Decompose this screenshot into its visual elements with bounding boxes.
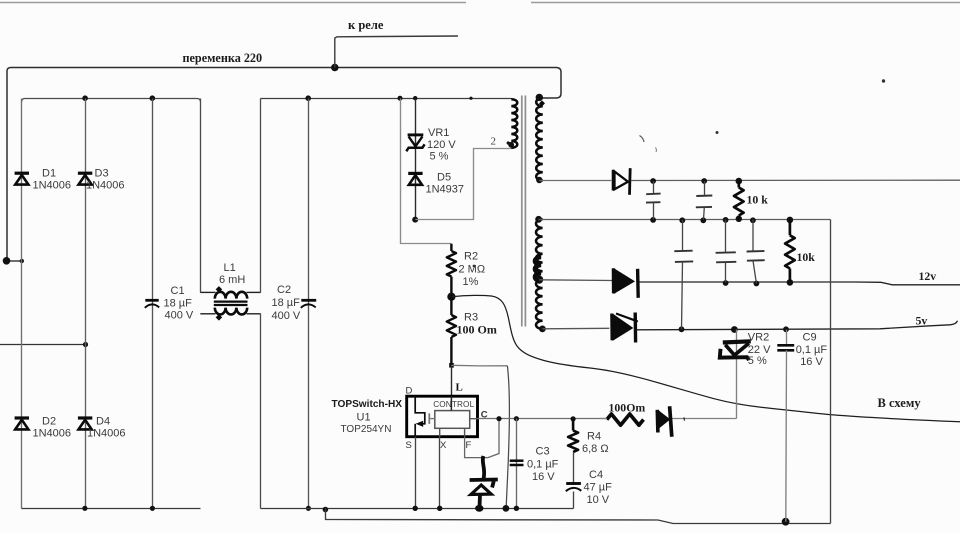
node rail2 at 10k <box>736 216 742 222</box>
resistor 10k snubber <box>734 181 744 219</box>
IC U1 C pin stub <box>470 418 478 420</box>
wire rect2 top rail to primary <box>261 98 512 100</box>
inductor L1 polarity dot top <box>216 286 223 293</box>
IC U1 gate bar <box>428 413 430 424</box>
svg-text:D4: D4 <box>96 416 110 428</box>
svg-text:16 V: 16 V <box>800 356 823 368</box>
wire AC second input line <box>0 344 86 346</box>
svg-text:к реле: к реле <box>348 18 384 32</box>
node secondary1 polarity dot <box>539 100 545 106</box>
node C line at C3 <box>514 416 519 421</box>
capacitor CE rail2 to 12v rail <box>752 220 754 251</box>
node rail1 at cap A <box>650 178 656 184</box>
IC U1 control block <box>435 411 470 429</box>
wire C1 column <box>152 99 154 509</box>
node rail2 at capD <box>723 217 729 223</box>
node bridge top at D3 column <box>82 95 88 101</box>
capacitor C9 plates <box>777 344 794 347</box>
wire branch to relay (к реле) <box>335 36 458 68</box>
node bridge bottom at D4 column <box>82 506 87 511</box>
wire bridge top rail <box>22 99 201 103</box>
svg-text:C2: C2 <box>277 284 291 296</box>
node rect2 top at R2 drop <box>398 96 403 101</box>
inductor L1 polarity dot bottom <box>216 314 223 321</box>
svg-text:VR1: VR1 <box>428 127 449 139</box>
svg-text:5v: 5v <box>916 314 928 328</box>
wire rect2 left column upper <box>260 99 262 293</box>
node 12v rail at 10k2 <box>787 279 794 286</box>
speck small mark <box>655 148 658 153</box>
top border line left segment <box>0 2 466 4</box>
wire 5v rail <box>637 321 958 330</box>
node R2/R3 junction <box>447 293 455 301</box>
svg-text:TOP254YN: TOP254YN <box>341 424 392 435</box>
resistor 10k2 rail2 to 12v rail <box>785 220 795 283</box>
svg-text:U1: U1 <box>357 412 371 424</box>
svg-text:В схему: В схему <box>878 396 922 410</box>
node secondary2 top <box>535 216 542 223</box>
capacitor CC rail2 to 5v rail <box>682 220 684 251</box>
diode D3 <box>78 172 92 175</box>
wire R4 to C4 <box>573 452 575 483</box>
svg-text:D5: D5 <box>437 172 451 184</box>
inductor L1 core bar 2 <box>214 304 248 306</box>
svg-text:переменка 220: переменка 220 <box>183 51 263 65</box>
wire F pin jog to C line <box>465 419 499 458</box>
speck near transformer <box>473 265 476 268</box>
node secondary1 bottom <box>536 177 542 183</box>
diode VD3 <box>610 314 613 341</box>
diode D4 <box>78 416 92 419</box>
diode VD1 <box>612 170 615 191</box>
inductor L1 bottom winding lead right <box>247 313 261 315</box>
node 12v rail at cap E <box>754 281 760 287</box>
zener Z1 triangle <box>471 485 491 495</box>
wire bridge bottom rail <box>22 508 201 510</box>
wire VR2 column <box>736 330 738 419</box>
node rail1 at cap B <box>701 178 707 184</box>
svg-text:X: X <box>440 440 447 451</box>
node C line at R4 <box>571 416 576 421</box>
node primary bottom <box>508 142 514 148</box>
transformer core bar 2 <box>524 96 526 327</box>
IC U1 F pin stub <box>464 428 466 436</box>
zener VR1 symbol <box>408 133 424 136</box>
diode VD4 feedback <box>655 410 659 433</box>
svg-text:C1: C1 <box>171 285 185 297</box>
wire L-node branch horizontal <box>451 364 507 367</box>
node AC link to D1 column <box>20 259 24 263</box>
node zener Z1 at bottom rail <box>475 505 483 512</box>
svg-text:R4: R4 <box>587 431 601 443</box>
wire freehand long wire to В схему <box>451 295 960 421</box>
diode D5 symbol <box>408 172 422 175</box>
resistor R2 <box>447 244 456 297</box>
node rail2 at 10k2 <box>787 217 794 224</box>
wire C3 column <box>516 419 518 509</box>
svg-text:0,1 µF: 0,1 µF <box>796 344 828 356</box>
IC U1 MOSFET arrowhead <box>416 421 424 427</box>
zener Z1 stem bottom <box>478 495 482 508</box>
svg-text:C9: C9 <box>803 332 817 344</box>
node bottom rail to lower rail junction <box>323 507 329 513</box>
svg-text:100 Om: 100 Om <box>457 323 497 337</box>
svg-text:L1: L1 <box>224 262 236 274</box>
svg-text:2 MΩ: 2 MΩ <box>459 264 486 276</box>
svg-text:D3: D3 <box>95 168 109 180</box>
node L-branch at bottom rail <box>503 505 510 512</box>
svg-text:18 µF: 18 µF <box>164 297 193 309</box>
inductor L1 core bar 1 <box>214 300 248 302</box>
svg-text:400 V: 400 V <box>272 310 301 322</box>
zener Z1 cathode bar <box>470 480 498 488</box>
capacitor C3 plates <box>510 459 524 462</box>
inductor L1 bottom winding lead left <box>200 313 215 315</box>
svg-text:12v: 12v <box>919 269 937 283</box>
wire from top rail down to R2 <box>401 99 452 244</box>
wire bridge right edge to L1 <box>200 99 202 293</box>
svg-text:6 mH: 6 mH <box>219 274 245 286</box>
svg-text:1%: 1% <box>463 276 479 288</box>
wire C4 to bottom rail <box>573 492 575 509</box>
diode VD2 <box>612 268 616 293</box>
svg-text:C4: C4 <box>589 469 603 481</box>
capacitor C1 symbol <box>145 299 158 302</box>
inductor L1 top winding <box>215 292 247 299</box>
svg-text:1N4006: 1N4006 <box>86 180 125 192</box>
wire rect2 left column lower <box>260 314 262 509</box>
wire C2 column <box>308 99 310 509</box>
resistor 100Om feedback <box>607 414 644 425</box>
node rect2 bottom at C2 <box>306 506 311 511</box>
svg-text:6,8 Ω: 6,8 Ω <box>582 443 609 455</box>
resistor R3 <box>447 297 456 365</box>
node AC left corner <box>3 257 11 265</box>
node primary top polarity dot <box>507 141 510 144</box>
node clamp bottom junction <box>412 217 418 223</box>
wire C9 column lower <box>785 350 788 521</box>
node X at bottom rail <box>437 506 442 511</box>
wire D1/D2 column <box>21 99 23 509</box>
svg-text:400 V: 400 V <box>165 310 194 322</box>
transformer core bar 1 <box>521 96 523 327</box>
wire AC top rail with corner to transformer <box>7 68 561 260</box>
svg-text:L: L <box>456 382 463 394</box>
svg-text:10 k: 10 k <box>747 193 769 207</box>
node lower rail at C9 <box>782 518 790 526</box>
wire rect2 bottom rail <box>261 508 574 510</box>
node bridge top at C1 column <box>150 95 156 101</box>
node 5v rail at C9 <box>783 326 789 332</box>
zener Z1 below TOPSwitch stem top <box>483 456 484 479</box>
svg-text:1N4006: 1N4006 <box>33 428 72 440</box>
wire L-node branch drop to ground <box>506 366 509 508</box>
wire C pin line to the right <box>478 418 608 420</box>
svg-text:TOPSwitch-HX: TOPSwitch-HX <box>332 399 403 410</box>
node rect2 top at VR1 column <box>413 96 417 100</box>
wire VR1/D5 column <box>415 99 417 220</box>
wire clamp return to primary <box>416 149 512 220</box>
wire tick right of VD4 <box>683 417 686 420</box>
svg-text:5 %: 5 % <box>748 355 767 367</box>
wire 100Om left lead <box>601 418 607 420</box>
node rail2 at capA <box>650 217 656 223</box>
speck mid <box>716 131 719 134</box>
svg-text:CONTROL: CONTROL <box>433 400 474 409</box>
svg-text:2: 2 <box>491 136 497 148</box>
wire D3/D4 column <box>85 99 87 509</box>
wire 12v rail <box>640 282 960 285</box>
svg-text:1N4006: 1N4006 <box>33 180 72 192</box>
wire S pin to bottom rail <box>415 437 417 509</box>
wire C9 column upper <box>786 330 788 345</box>
inductor L1 top winding lead left <box>200 291 215 293</box>
node L-pin branch junction <box>449 363 454 368</box>
svg-text:47 µF: 47 µF <box>584 482 613 494</box>
transformer secondary winding 1 <box>536 98 543 181</box>
svg-text:D2: D2 <box>42 416 56 428</box>
wire secondary1 to diode VD1 <box>539 180 611 182</box>
wire R3 to L pin <box>451 365 453 396</box>
svg-text:10k: 10k <box>797 250 816 264</box>
node rect2 top at C2 <box>305 95 311 101</box>
node 12v rail at cap D <box>723 280 729 286</box>
wire lower ground rail <box>326 509 831 524</box>
transformer primary winding <box>511 99 517 148</box>
svg-text:D: D <box>406 386 413 397</box>
transformer secondary winding 3 <box>536 280 543 329</box>
resistor R4 <box>568 419 578 452</box>
IC U1 TOPSwitch box <box>407 396 478 437</box>
wire right edge box column <box>830 220 832 524</box>
diode D2 <box>15 416 29 419</box>
wire secondary2 tap to diode VD2 <box>539 279 612 282</box>
node 5v rail at VR2 <box>731 326 738 333</box>
node rail2 at capB <box>700 217 706 223</box>
IC U1 L pin lead inside <box>450 396 452 410</box>
node secondary1 top <box>536 94 543 101</box>
speck squiggle <box>640 136 645 143</box>
svg-text:1N4937: 1N4937 <box>426 184 465 196</box>
wire secondary3 to diode VD3 <box>542 327 609 330</box>
capacitor CA between rail1 and rail2 <box>653 181 655 194</box>
IC U1 X pin stub <box>439 428 441 436</box>
wire X pin to bottom rail <box>439 437 441 509</box>
wire feedback branch <box>671 418 736 420</box>
IC U1 MOSFET drain path <box>415 396 425 424</box>
node S at bottom rail <box>413 506 418 511</box>
svg-text:R2: R2 <box>464 251 478 263</box>
transformer secondary winding overdraw <box>535 257 541 281</box>
svg-text:18 µF: 18 µF <box>272 297 301 309</box>
capacitor CD rail2 to 12v rail <box>725 220 727 253</box>
node secondary3 bottom <box>539 326 546 333</box>
node AC2 at D3/D4 column <box>83 342 88 347</box>
top border line right segment <box>531 2 960 4</box>
wire top secondary rail <box>631 179 960 181</box>
speck top right <box>882 79 885 82</box>
node small dot near primary top <box>469 97 472 100</box>
node C line at F riser <box>496 416 501 421</box>
wire AC left link to bridge <box>7 260 23 262</box>
capacitor CB between rail1 and rail2 <box>704 181 706 195</box>
svg-text:120 V: 120 V <box>427 139 456 151</box>
node secondary tap <box>535 276 543 284</box>
node rail1 at 10k <box>736 178 743 185</box>
node rail2 at capC <box>679 217 685 223</box>
svg-text:16 V: 16 V <box>532 471 555 483</box>
svg-text:S: S <box>406 440 412 451</box>
capacitor C2 symbol <box>301 299 316 302</box>
svg-text:1N4006: 1N4006 <box>87 428 126 440</box>
transformer secondary winding 2 <box>536 219 543 280</box>
diode D1 <box>15 172 29 175</box>
svg-text:F: F <box>466 440 472 451</box>
node rail2 at capE <box>750 217 756 223</box>
svg-text:C3: C3 <box>536 446 550 458</box>
svg-text:10 V: 10 V <box>587 494 610 506</box>
svg-text:100Om: 100Om <box>609 401 646 415</box>
inductor L1 bottom winding <box>215 308 247 315</box>
node 5v rail at cap C column <box>679 326 685 332</box>
inductor L1 top winding lead right <box>247 291 261 293</box>
IC U1 MOSFET source path <box>414 424 416 437</box>
wire secondary rail 2 <box>539 219 831 221</box>
svg-text:D1: D1 <box>42 168 56 180</box>
svg-text:VR2: VR2 <box>748 332 769 344</box>
capacitor C4 symbol <box>566 482 581 485</box>
svg-text:5 %: 5 % <box>430 151 449 163</box>
svg-text:0,1 µF: 0,1 µF <box>527 459 559 471</box>
node C3 at bottom rail <box>514 506 519 511</box>
node junction к-реле on top rail <box>331 64 339 72</box>
node bridge bottom at C1 column <box>150 506 155 511</box>
zener VR2 symbol <box>723 341 751 342</box>
